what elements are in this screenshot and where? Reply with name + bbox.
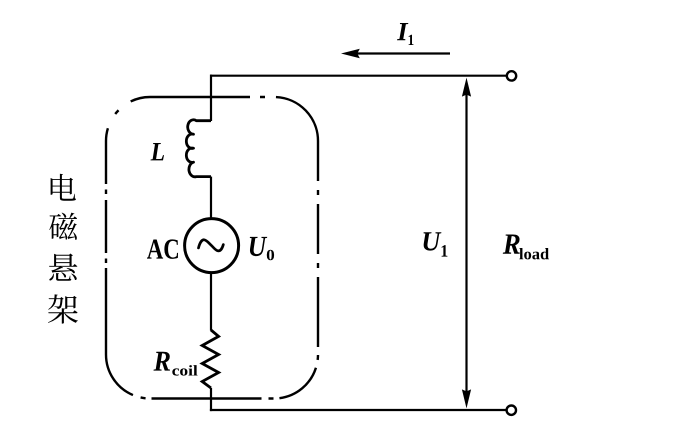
- resistor R_coil: [202, 330, 218, 388]
- AC source U0: [185, 219, 239, 273]
- wire: bottom horizontal: [210, 409, 506, 411]
- label I1: [397, 23, 408, 40]
- label L: [151, 143, 165, 160]
- label AC: [147, 239, 178, 259]
- hanzi 电 (dian): [51, 174, 76, 201]
- dash-dot enclosure (electromagnetic suspension boundary): [106, 97, 318, 399]
- inductor L: [186, 120, 211, 177]
- wire: vertical branch above inductor: [210, 75, 212, 121]
- sine wave inside source: [199, 240, 224, 251]
- label U0: [250, 237, 267, 256]
- hanzi 悬 (xuan): [49, 254, 77, 281]
- wire: inductor to AC source: [210, 177, 212, 219]
- label R_load: [503, 235, 520, 254]
- label U1: [424, 232, 442, 250]
- voltage arrow U1 (double headed): [465, 94, 467, 392]
- hanzi 磁 (ci): [49, 213, 77, 240]
- hanzi 架 (jia): [48, 294, 78, 323]
- current arrow I1: [357, 52, 450, 54]
- label R_coil: [154, 352, 171, 371]
- wire: AC source to resistor: [210, 273, 212, 331]
- wire: resistor to bottom wire: [210, 388, 212, 411]
- wire: top horizontal: [210, 75, 507, 77]
- node: bottom terminal: [507, 406, 516, 415]
- node: top terminal: [507, 71, 516, 80]
